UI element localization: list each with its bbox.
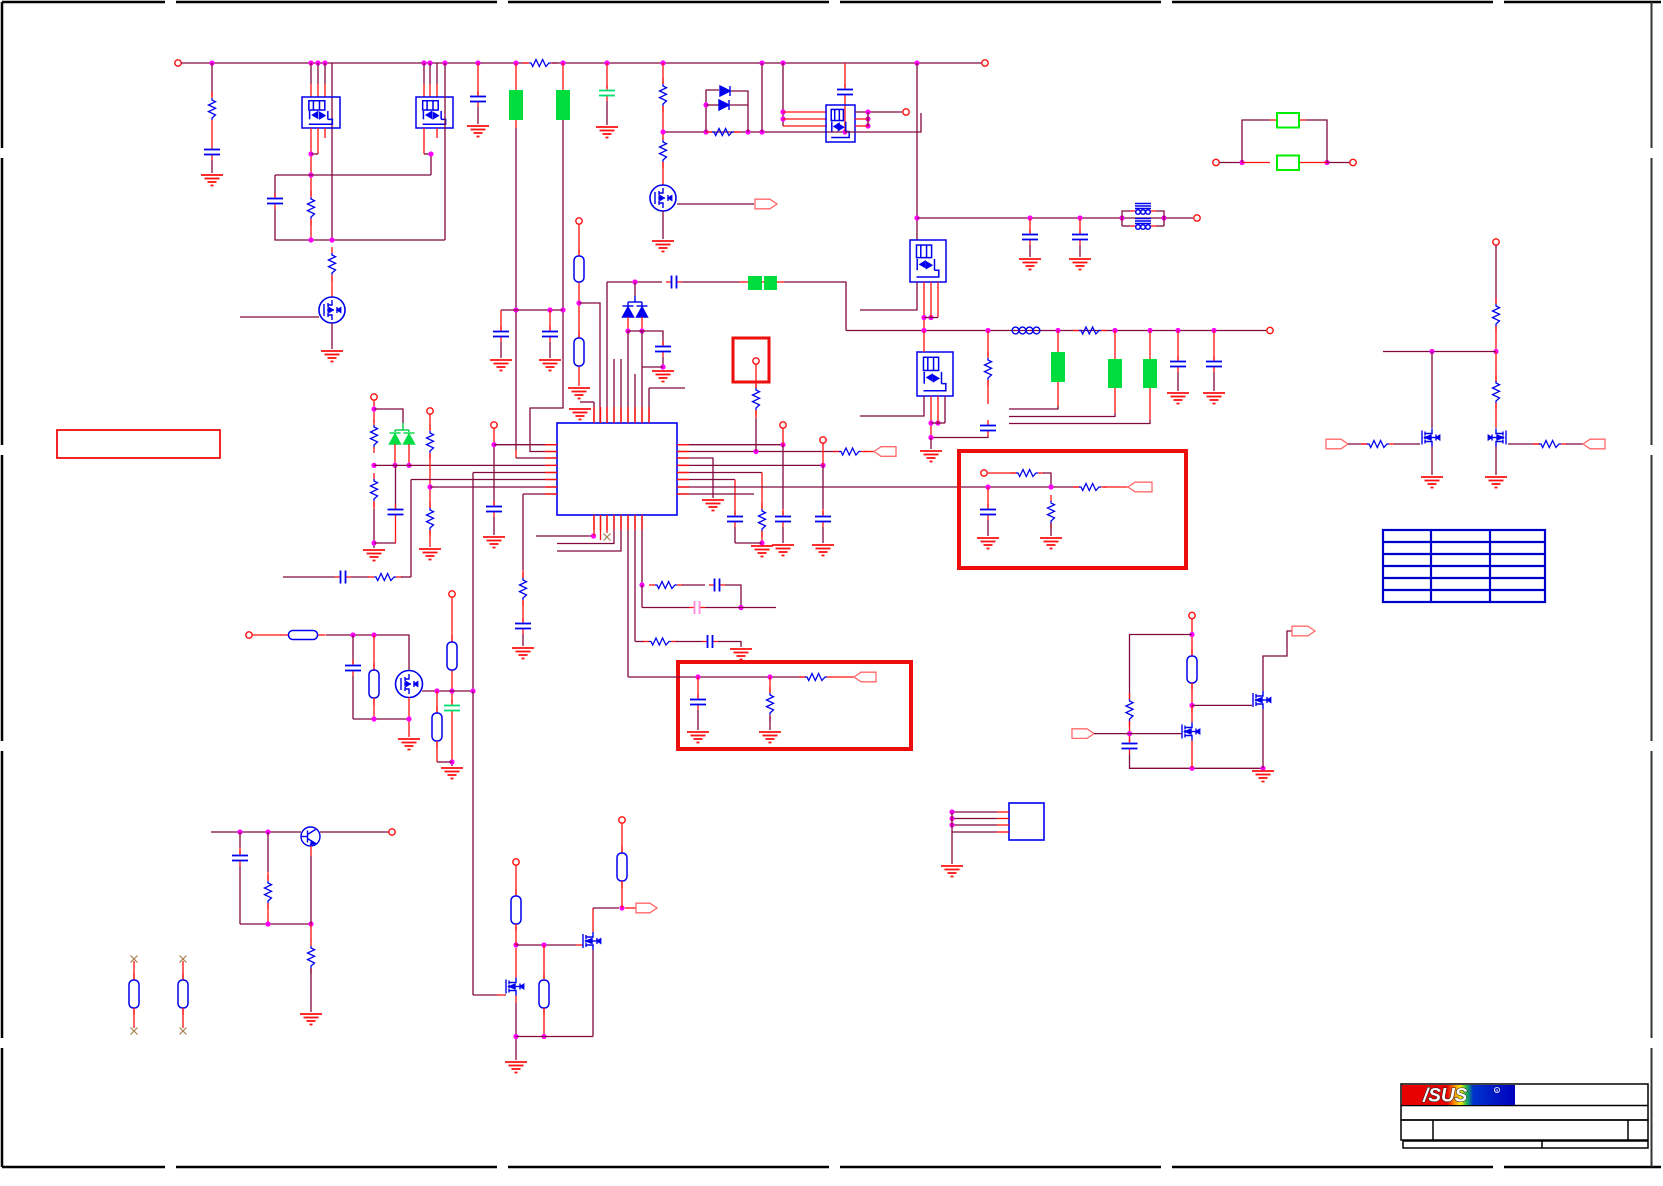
dual MOSFET Q6 [910, 240, 946, 282]
wire [860, 396, 924, 416]
junction [1189, 703, 1194, 708]
junction [1429, 349, 1434, 354]
wire [522, 634, 524, 646]
wire [395, 520, 397, 543]
wire [734, 527, 736, 543]
MOSFET Q15 [1253, 691, 1271, 709]
wire [1114, 388, 1116, 413]
wire [275, 174, 431, 176]
junction [1112, 328, 1117, 333]
junction [703, 129, 708, 134]
signal flag out [755, 199, 777, 209]
junction [406, 463, 411, 468]
capacitor C7 [1029, 229, 1031, 235]
wire [326, 635, 409, 671]
junction [541, 942, 546, 947]
wire [317, 128, 319, 154]
resistor R32 [1129, 693, 1131, 699]
junction [308, 237, 313, 242]
fuse F13 [436, 706, 438, 713]
junction [921, 315, 926, 320]
resistor R19 [1010, 472, 1016, 474]
inductor L2 [1135, 219, 1151, 230]
junction [921, 328, 926, 333]
wire [755, 364, 757, 388]
connector pin [1267, 327, 1273, 333]
capacitor C19 [822, 511, 824, 517]
fuse F4 (green) [1277, 156, 1299, 171]
junction [442, 60, 447, 65]
wire [606, 515, 608, 533]
wire [682, 584, 705, 586]
ground [1069, 259, 1091, 270]
wire [627, 331, 629, 423]
connector pin [513, 859, 519, 865]
wire [1242, 120, 1270, 163]
resistor R6 [706, 131, 712, 133]
wire [662, 357, 664, 369]
wire [1262, 709, 1264, 768]
capacitor C12 [1213, 356, 1215, 362]
wire [501, 309, 563, 311]
connector pin [753, 358, 759, 364]
wire [937, 396, 939, 423]
wire [579, 303, 600, 423]
connector pin [820, 437, 826, 443]
junction [560, 307, 565, 312]
ground [759, 732, 781, 743]
ground [687, 732, 709, 743]
resistor R5 [662, 78, 664, 84]
connector pin [981, 470, 987, 476]
capacitor C5 [549, 326, 551, 332]
wire [1029, 218, 1031, 233]
wire [627, 317, 629, 331]
junction [632, 279, 637, 284]
capacitor (green) [606, 85, 608, 91]
wire [923, 331, 925, 353]
wire [557, 515, 614, 544]
wire [1495, 352, 1497, 383]
wire [924, 317, 938, 319]
connector pin [246, 632, 252, 638]
wire [1192, 704, 1252, 706]
connector pin [427, 408, 433, 414]
wire [523, 493, 557, 495]
ground [1167, 393, 1189, 404]
wire [1213, 331, 1215, 361]
capacitor C9 [666, 281, 672, 283]
wire [436, 741, 438, 762]
junction [745, 129, 750, 134]
wire [769, 677, 771, 693]
wire [1431, 352, 1433, 429]
fuse F10 [578, 249, 580, 256]
wire [822, 527, 824, 543]
junction [513, 307, 518, 312]
MOSFET Q13 [1488, 429, 1506, 447]
wire [663, 131, 845, 133]
wire [864, 451, 874, 453]
wire [1306, 120, 1327, 163]
wire [1242, 162, 1270, 164]
fuse F17 [543, 973, 545, 980]
ground [920, 451, 942, 462]
wire gate [240, 316, 319, 318]
junction [427, 484, 432, 489]
capacitor C14 [395, 504, 397, 510]
wire [274, 175, 276, 197]
wire [477, 63, 479, 95]
wire [1299, 162, 1327, 164]
wire [436, 63, 438, 84]
capacitor C3 [477, 91, 479, 97]
wire [536, 535, 594, 537]
drawing frame border [2, 1, 165, 4]
wire [500, 310, 502, 330]
resistor R22 [649, 584, 655, 586]
no-connect [180, 1028, 187, 1035]
wire [374, 464, 557, 466]
wire [267, 903, 269, 924]
resistor R15 [522, 572, 524, 578]
ground [1019, 259, 1041, 270]
junction [434, 688, 439, 693]
signal flag [636, 903, 657, 913]
junction [1189, 766, 1194, 771]
junction [470, 688, 475, 693]
wire [516, 457, 557, 459]
fuse F2 (green) [556, 90, 570, 120]
junction [308, 60, 313, 65]
wire [761, 531, 763, 544]
junction [639, 328, 644, 333]
junction [759, 60, 764, 65]
wire [937, 282, 939, 318]
junction [780, 116, 785, 121]
connector pin [1493, 239, 1499, 245]
wire IC top stubs [613, 359, 615, 423]
wire [855, 118, 868, 120]
wire [451, 677, 453, 703]
ground [941, 866, 963, 877]
wire [562, 63, 564, 90]
junction [308, 151, 313, 156]
red highlight box 2 [678, 662, 911, 749]
junction [759, 540, 764, 545]
junction [639, 582, 644, 587]
MOSFET Q9 [506, 978, 524, 996]
resistor R17 [755, 382, 757, 388]
wire [493, 428, 495, 445]
wire [522, 600, 524, 622]
ground [772, 545, 794, 556]
wire top rail [181, 62, 528, 64]
wire [697, 677, 699, 698]
wire [725, 585, 741, 608]
ground [1485, 477, 1507, 488]
green dual diode D5 [402, 423, 404, 430]
junction [491, 442, 496, 447]
wire [1191, 741, 1193, 769]
wire [515, 865, 517, 896]
junction [949, 809, 954, 814]
connector pin [619, 817, 625, 823]
fuse F14 [281, 634, 289, 636]
connector pin [491, 422, 497, 428]
wire [625, 907, 636, 909]
junction [315, 60, 320, 65]
wire [952, 831, 997, 833]
wire [252, 634, 281, 636]
wire [988, 472, 1017, 474]
wire gate net [422, 690, 473, 692]
MOSFET Q8 [396, 671, 423, 698]
wire [353, 718, 409, 720]
blue diode pair feed [634, 282, 636, 296]
wire [373, 400, 375, 423]
wire [621, 823, 623, 853]
wire [543, 1008, 545, 1037]
capacitor C6 [844, 84, 846, 90]
ground [652, 371, 674, 382]
wire [275, 209, 445, 240]
junction [949, 822, 954, 827]
junction [1211, 328, 1216, 333]
ground [512, 648, 534, 659]
wire [429, 63, 431, 84]
wire [1263, 631, 1292, 691]
wire [324, 63, 326, 84]
dual MOSFET Q5 [826, 105, 855, 142]
wire [1394, 443, 1420, 445]
svg-text:/SUS: /SUS [1422, 1086, 1468, 1107]
wire [783, 111, 827, 113]
wire [705, 607, 776, 609]
junction [738, 605, 743, 610]
ground [568, 388, 590, 399]
wire [394, 444, 396, 465]
junction [308, 921, 313, 926]
wire [436, 128, 438, 138]
wire [734, 480, 736, 516]
fuse F12 [451, 635, 453, 642]
wire [845, 113, 921, 132]
junction [513, 942, 518, 947]
MOSFET Q10 [583, 932, 601, 950]
junction [660, 364, 665, 369]
resistor R7 [662, 134, 664, 140]
dual MOSFET Q7 [917, 352, 953, 396]
wire [761, 63, 763, 132]
junction [985, 484, 990, 489]
junction [660, 129, 665, 134]
wire [320, 831, 389, 833]
junction [1493, 349, 1498, 354]
fuse F7 (green) [1051, 352, 1065, 382]
resistor R12 [429, 425, 431, 431]
junction [576, 300, 581, 305]
junction [1260, 766, 1265, 771]
fuse F1 (green) [509, 90, 523, 120]
junction [695, 674, 700, 679]
IC pin stubs [545, 444, 557, 446]
wire [1057, 331, 1059, 353]
ground [467, 126, 489, 137]
MOSFET Q14 [1182, 723, 1200, 741]
wire [930, 438, 932, 450]
junction [421, 60, 426, 65]
wire [472, 691, 474, 995]
wire [706, 90, 719, 132]
wire [578, 373, 580, 386]
wire [1383, 351, 1496, 353]
wire [855, 111, 902, 113]
fuse F18 [621, 846, 623, 853]
capacitor C15 [493, 501, 495, 507]
resistor R30 [1495, 375, 1497, 381]
junction [371, 463, 376, 468]
junction [865, 116, 870, 121]
no-connect [131, 956, 138, 963]
resistor R2 [211, 92, 213, 98]
junction [780, 442, 785, 447]
wire [451, 716, 453, 762]
wire [352, 635, 354, 664]
wire [782, 527, 784, 543]
wire [516, 1036, 593, 1038]
diode D2 [719, 100, 729, 110]
wire [677, 493, 754, 495]
ground [977, 538, 999, 549]
wire [782, 428, 784, 445]
junction [371, 716, 376, 721]
junction [392, 463, 397, 468]
wire [931, 422, 945, 424]
wire [649, 387, 685, 389]
resistor R10 [373, 419, 375, 425]
wire [600, 515, 602, 540]
ground [539, 360, 561, 371]
ground [398, 739, 420, 750]
resistor R8 [1073, 330, 1079, 332]
wire [676, 641, 702, 643]
capacitor C23 (pink) [689, 607, 695, 609]
fuse F3 (green) [1277, 113, 1299, 128]
connector pin [1213, 159, 1219, 165]
junction [1239, 160, 1244, 165]
junction [1161, 215, 1166, 220]
capacitor C26 [352, 660, 354, 666]
wire [451, 597, 453, 642]
ground [702, 500, 724, 511]
wire [662, 63, 664, 84]
fuse F19 [1191, 649, 1193, 656]
wire [324, 128, 326, 138]
wire [522, 494, 524, 570]
wire [677, 203, 754, 205]
diode D1 [720, 86, 730, 96]
junction [1119, 215, 1124, 220]
wire [283, 576, 335, 578]
junction [753, 449, 758, 454]
junction [541, 1034, 546, 1039]
dual MOSFET Q2 [416, 97, 453, 128]
junction [1175, 328, 1180, 333]
wire [429, 453, 431, 508]
wire [1566, 443, 1583, 445]
connector pin [903, 109, 909, 115]
connector pin [1189, 612, 1195, 618]
wire [641, 317, 643, 331]
wire y=282 [607, 281, 662, 283]
wire [662, 211, 664, 239]
wire [373, 501, 375, 509]
wire [987, 487, 989, 508]
wire [951, 812, 953, 864]
wire [317, 63, 319, 84]
junction [780, 60, 785, 65]
capacitor C28 [1129, 738, 1131, 744]
wire [494, 444, 557, 446]
inductor L1 [1135, 204, 1151, 215]
wire [430, 154, 432, 175]
wire [641, 515, 643, 585]
connector pin [780, 422, 786, 428]
resistor R3 [310, 191, 312, 197]
junction [371, 632, 376, 637]
MOSFET Q3 [319, 297, 345, 323]
wire [1043, 473, 1051, 487]
wire [593, 515, 595, 536]
junction [865, 109, 870, 114]
wire [578, 289, 580, 338]
wire [401, 576, 411, 578]
connector pin [389, 829, 395, 835]
signal flag out [1583, 439, 1605, 449]
wire [628, 331, 663, 345]
wire [761, 473, 763, 510]
wire [1327, 162, 1350, 164]
capacitor (green) [451, 700, 453, 706]
junction [308, 172, 313, 177]
wire [239, 866, 241, 924]
signal flag [854, 672, 876, 682]
junction [560, 60, 565, 65]
wire [730, 104, 748, 106]
junction [428, 151, 433, 156]
diode D4 [637, 306, 648, 317]
no-connect [180, 956, 187, 963]
wire [515, 996, 517, 1004]
MOSFET Q12 [1422, 429, 1440, 447]
wire [677, 444, 783, 446]
ground [751, 546, 773, 557]
junction [591, 533, 596, 538]
signal flag in [1072, 729, 1094, 739]
wire [677, 458, 713, 498]
wire [606, 63, 608, 88]
fuse F6 (green) [764, 276, 777, 290]
red empty box (notes area) [57, 430, 220, 458]
wire [267, 832, 269, 872]
wire [429, 414, 431, 430]
wire [310, 924, 312, 941]
wire [930, 282, 932, 318]
wire [635, 641, 644, 643]
red test box [733, 338, 769, 382]
junction [265, 829, 270, 834]
